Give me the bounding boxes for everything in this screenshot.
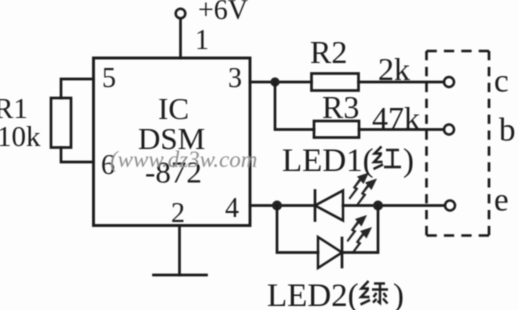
svg-text:2: 2 bbox=[171, 198, 185, 229]
wire R2 to terminal c bbox=[359, 81, 445, 84]
LED1 red bbox=[315, 191, 343, 221]
wire pin 4 to LED1 bbox=[250, 204, 315, 207]
wire R3 to terminal b bbox=[359, 128, 444, 131]
wire pin 5 to R1 top bbox=[61, 79, 94, 98]
node junction right bbox=[373, 201, 383, 211]
terminal c bbox=[444, 64, 509, 100]
svg-text:10k: 10k bbox=[0, 121, 41, 153]
terminal b bbox=[444, 113, 516, 149]
svg-text:): ) bbox=[393, 278, 404, 310]
svg-text:3: 3 bbox=[228, 63, 242, 94]
resistor R2 bbox=[310, 34, 410, 91]
svg-text:R3: R3 bbox=[322, 89, 359, 125]
ground bbox=[154, 274, 207, 277]
wire power to pin 1 bbox=[179, 18, 182, 58]
wire junction to R3 bbox=[275, 82, 314, 130]
node junction pin4 bbox=[272, 201, 282, 211]
resistor R3 bbox=[314, 89, 420, 138]
svg-text:4: 4 bbox=[225, 193, 239, 224]
label LED1 (red) bbox=[282, 143, 414, 179]
wire LED1 to terminal e bbox=[343, 204, 445, 207]
LED2 green bbox=[318, 237, 342, 268]
wire R1 bottom to pin 6 bbox=[61, 148, 94, 163]
label LED2 (green) bbox=[267, 278, 404, 310]
LED1 arrows bbox=[349, 173, 378, 206]
svg-text:LED2(: LED2( bbox=[267, 278, 359, 310]
svg-text:c: c bbox=[494, 64, 509, 100]
power terminal +6V bbox=[176, 0, 248, 26]
terminal e bbox=[445, 183, 509, 219]
wire LED2 branch left bbox=[277, 206, 318, 253]
svg-text:LED1(: LED1( bbox=[282, 143, 374, 179]
svg-text:): ) bbox=[403, 143, 414, 179]
resistor R1 bbox=[0, 93, 71, 153]
svg-text:5: 5 bbox=[102, 63, 116, 94]
wire LED2 branch right bbox=[342, 206, 378, 253]
LED2 arrows bbox=[347, 215, 373, 254]
svg-text:b: b bbox=[499, 113, 516, 149]
svg-text:R2: R2 bbox=[310, 34, 347, 70]
svg-text:e: e bbox=[494, 183, 509, 219]
svg-text:(www.dz3w.com: (www.dz3w.com bbox=[110, 147, 257, 172]
wire pin 3 to R2 bbox=[250, 81, 312, 84]
IC U1 DSM-872 bbox=[94, 58, 251, 226]
node junction pin3 bbox=[270, 77, 279, 86]
svg-text:+6V: +6V bbox=[198, 0, 248, 26]
wire pin 2 to ground bbox=[178, 226, 181, 276]
socket dashed box bbox=[427, 51, 490, 236]
svg-text:1: 1 bbox=[195, 25, 209, 56]
